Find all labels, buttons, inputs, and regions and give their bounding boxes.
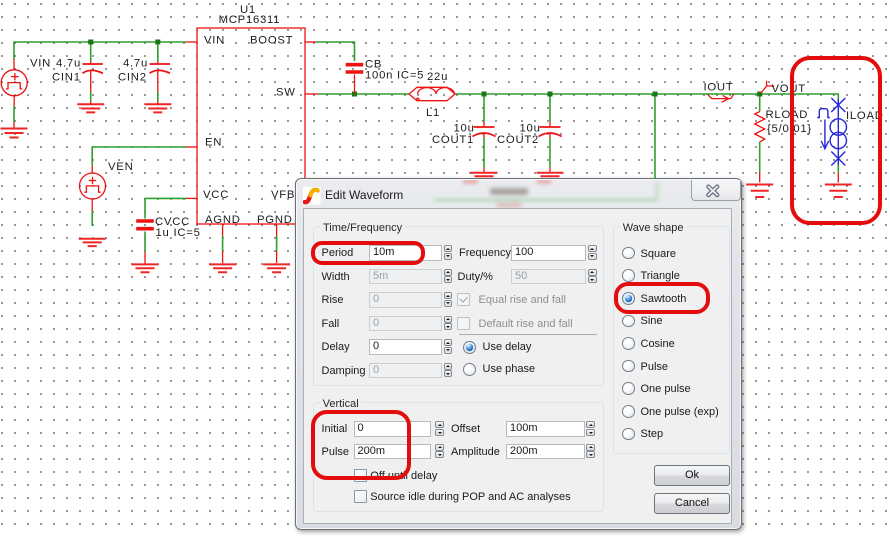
- svg-text:COUT2: COUT2: [497, 134, 539, 146]
- svg-text:L1: L1: [426, 107, 440, 119]
- svg-text:VIN: VIN: [204, 35, 225, 47]
- svg-text:AGND: AGND: [205, 214, 241, 226]
- svg-text:VCC: VCC: [203, 189, 229, 201]
- svg-text:VIN: VIN: [30, 58, 51, 70]
- svg-text:SW: SW: [276, 87, 296, 99]
- svg-text:4.7u: 4.7u: [123, 58, 148, 70]
- svg-text:1u IC=5: 1u IC=5: [156, 227, 201, 239]
- svg-text:VEN: VEN: [108, 161, 133, 173]
- svg-text:VFB: VFB: [271, 189, 295, 201]
- svg-text:BOOST: BOOST: [250, 35, 293, 47]
- svg-text:4.7u: 4.7u: [56, 58, 81, 70]
- svg-text:MCP16311: MCP16311: [219, 14, 281, 26]
- svg-text:COUT1: COUT1: [432, 134, 474, 146]
- svg-text:100n IC=5: 100n IC=5: [365, 70, 424, 82]
- svg-text:PGND: PGND: [257, 214, 293, 226]
- svg-text:IOUT: IOUT: [704, 82, 734, 94]
- svg-text:EN: EN: [205, 137, 222, 149]
- svg-text:CIN2: CIN2: [118, 72, 147, 84]
- svg-text:10u: 10u: [520, 123, 541, 135]
- svg-text:22u: 22u: [427, 71, 448, 83]
- svg-text:CIN1: CIN1: [52, 72, 81, 84]
- svg-text:10u: 10u: [454, 123, 475, 135]
